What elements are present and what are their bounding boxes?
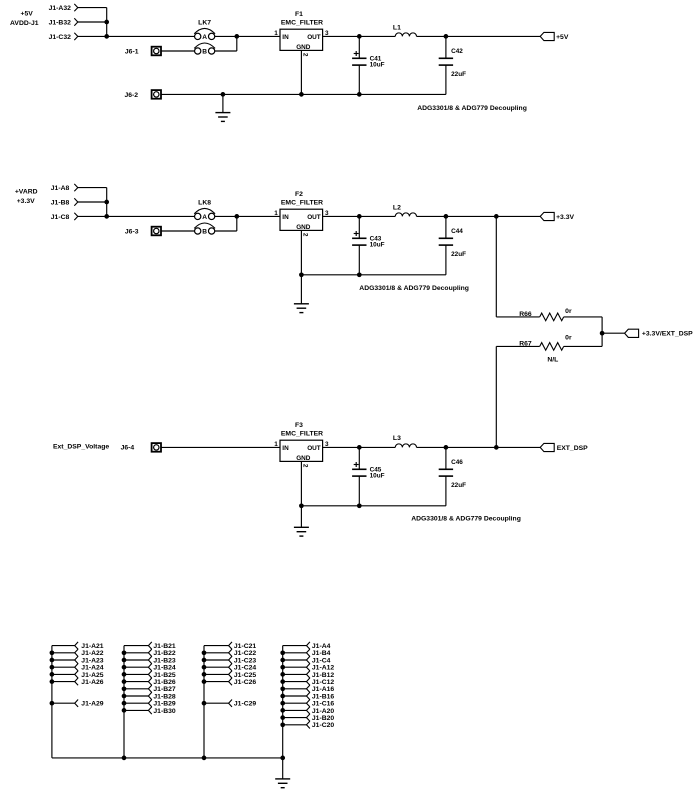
svg-text:2: 2	[301, 233, 308, 237]
pin J1-C12	[283, 678, 335, 686]
svg-text:+5V: +5V	[21, 11, 34, 18]
pin J1-C16	[283, 700, 335, 708]
junction J1-A12	[280, 665, 285, 670]
bus group misc	[282, 646, 284, 758]
junction branch 3.3V	[494, 214, 499, 219]
svg-text:OUT: OUT	[307, 214, 321, 221]
svg-text:J1-A23: J1-A23	[81, 657, 104, 664]
junction J1-B16	[280, 694, 285, 699]
junction J1-A25	[50, 672, 55, 677]
svg-text:22uF: 22uF	[451, 71, 466, 78]
junction C32	[104, 34, 109, 39]
junction F3 GND	[299, 503, 304, 508]
terminal +3.3V	[540, 212, 574, 220]
pin J1-C21	[204, 642, 256, 650]
wire branch to terminal	[496, 215, 540, 217]
connector J6-2	[124, 90, 161, 99]
svg-text:+3.3V: +3.3V	[556, 214, 574, 221]
svg-text:J1-B12: J1-B12	[312, 672, 335, 679]
pin J1-B20	[283, 714, 335, 722]
F3 pin 2 (GND)	[301, 464, 308, 468]
svg-text:J1-B26: J1-B26	[153, 679, 176, 686]
svg-text:J1-B21: J1-B21	[153, 643, 176, 650]
wire bottom J6-2 to C42	[161, 93, 446, 95]
terminal +3.3V/EXT_DSP	[625, 329, 694, 337]
F2 pin 2 (GND)	[301, 233, 308, 237]
terminal +5V	[540, 32, 569, 40]
svg-text:J1-A8: J1-A8	[51, 185, 70, 192]
wire +3.3V down to R66	[496, 216, 539, 317]
pin J1-A25	[52, 671, 104, 679]
junction bottom B	[122, 756, 127, 761]
wire J1-A8 to bus	[78, 187, 107, 189]
wire C46 to branch	[446, 446, 496, 448]
pin J1-A20	[283, 707, 335, 715]
junction J1-B28	[122, 694, 127, 699]
F3 pin 1	[274, 441, 278, 448]
svg-text:10uF: 10uF	[370, 241, 385, 248]
resistor R67 0r N/L	[519, 335, 572, 364]
pin J1-B32	[49, 18, 78, 26]
svg-text:ADG3301/8 & ADG779 Decoupling: ADG3301/8 & ADG779 Decoupling	[359, 285, 469, 292]
svg-text:IN: IN	[282, 34, 289, 41]
svg-text:J1-B8: J1-B8	[51, 199, 70, 206]
wire C44 to branch	[446, 215, 496, 217]
wire C43 to L2	[359, 215, 395, 217]
svg-text:J1-B32: J1-B32	[49, 19, 72, 26]
svg-text:3: 3	[325, 30, 329, 37]
junction B8	[104, 200, 109, 205]
wire C43 top lead	[358, 216, 360, 238]
junction J1-B25	[122, 672, 127, 677]
junction C8	[104, 214, 109, 219]
note decoupling 3	[411, 516, 521, 523]
svg-text:J6-4: J6-4	[121, 445, 135, 452]
svg-text:L2: L2	[393, 204, 401, 211]
capacitor C45 10uF	[352, 462, 385, 479]
F1 pin 3	[325, 30, 329, 37]
svg-text:EXT_DSP: EXT_DSP	[557, 445, 588, 452]
jumper LK7 row A	[194, 28, 215, 40]
pin J1-B16	[283, 692, 335, 700]
pin J1-B27	[124, 685, 176, 693]
node +3.3V/EXT_DSP	[600, 331, 605, 336]
svg-text:J1-C20: J1-C20	[312, 722, 335, 729]
wire J6-1 to LK7 B	[161, 50, 195, 52]
svg-text:OUT: OUT	[307, 34, 321, 41]
svg-text:J1-B25: J1-B25	[153, 672, 176, 679]
junction J1-C29	[202, 701, 207, 706]
wire bottom 3	[301, 505, 446, 507]
svg-text:0r: 0r	[565, 308, 572, 315]
svg-text:3: 3	[325, 441, 329, 448]
pin J1-C32	[49, 33, 78, 41]
capacitor C44 22uF	[439, 228, 466, 258]
junction J1-C25	[202, 672, 207, 677]
svg-text:GND: GND	[296, 44, 311, 51]
junction F2 GND	[299, 272, 304, 277]
svg-text:J1-A12: J1-A12	[312, 665, 335, 672]
pin J1-B25	[124, 671, 176, 679]
wire bottom ground bus	[52, 757, 283, 759]
junction C46 top	[444, 445, 449, 450]
svg-text:J1-C22: J1-C22	[234, 650, 257, 657]
jumper LK7 label	[198, 19, 211, 26]
svg-text:B: B	[202, 228, 207, 235]
svg-text:2: 2	[301, 53, 308, 57]
wire F3 OUT to C45	[323, 446, 360, 448]
svg-text:J1-A32: J1-A32	[49, 5, 72, 12]
wire C44 top lead	[445, 216, 447, 238]
svg-text:J1-B30: J1-B30	[153, 708, 176, 715]
wire junction to F1 IN	[237, 35, 280, 37]
wire C43 bottom lead	[358, 245, 360, 275]
wire C42 top lead	[445, 36, 447, 58]
junction J1-B20	[280, 715, 285, 720]
svg-text:+5V: +5V	[556, 34, 569, 41]
svg-text:J1-A24: J1-A24	[81, 665, 104, 672]
junction J1-C22	[202, 650, 207, 655]
wire C42 bottom lead	[445, 65, 447, 94]
svg-text:J6-3: J6-3	[125, 228, 139, 235]
junction LK7 out	[234, 34, 239, 39]
svg-text:ADG3301/8 & ADG779 Decoupling: ADG3301/8 & ADG779 Decoupling	[417, 105, 527, 112]
bus group B2x	[123, 646, 125, 758]
svg-text:C44: C44	[451, 228, 463, 235]
junction J1-B24	[122, 665, 127, 670]
wire J1-A32 to bus	[78, 7, 107, 9]
wire bottom 2	[301, 274, 446, 276]
junction J1-B26	[122, 679, 127, 684]
svg-text:J1-B23: J1-B23	[153, 657, 176, 664]
junction J1-C23	[202, 658, 207, 663]
wire J1-B32 to bus	[78, 21, 107, 23]
junction C45 top	[357, 445, 362, 450]
pin J1-C8	[51, 213, 78, 221]
pin J1-C29	[204, 700, 256, 708]
wire C41 to L1	[359, 35, 395, 37]
pin J1-A23	[52, 656, 104, 664]
inductor L1	[393, 24, 417, 36]
svg-text:J1-A29: J1-A29	[81, 701, 104, 708]
pin J1-C24	[204, 664, 256, 672]
junction F1 GND bottom	[299, 92, 304, 97]
ground symbol bottom	[275, 758, 290, 788]
svg-text:1: 1	[274, 30, 278, 37]
svg-text:C46: C46	[451, 459, 463, 466]
wire LK8 B up to junction	[215, 216, 237, 231]
wire C45 to L3	[359, 446, 395, 448]
svg-text:J1-C32: J1-C32	[49, 34, 72, 41]
svg-text:OUT: OUT	[307, 445, 321, 452]
connector J6-1	[125, 47, 161, 56]
connector J6-3	[125, 227, 161, 236]
svg-text:+VARD: +VARD	[15, 188, 38, 195]
svg-text:J1-C4: J1-C4	[312, 657, 331, 664]
svg-text:L3: L3	[393, 435, 401, 442]
jumper LK8 row B	[194, 223, 215, 235]
wire LK8 A to junction	[215, 215, 237, 217]
junction EXT_DSP branch	[494, 445, 499, 450]
pin J1-A32	[49, 4, 78, 12]
wire C46 bottom lead	[445, 476, 447, 506]
wire F2 GND stem	[300, 230, 302, 274]
svg-text:IN: IN	[282, 445, 289, 452]
pin J1-A21	[52, 642, 104, 650]
wire C8 to LK8	[78, 215, 195, 217]
wire C42 to terminal +5V	[446, 35, 540, 37]
junction C41 bottom	[357, 92, 362, 97]
pin J1-B30	[124, 707, 176, 715]
wire C41 bottom lead	[358, 65, 360, 94]
svg-text:J1-C21: J1-C21	[234, 643, 257, 650]
jumper LK8 label	[198, 199, 211, 206]
wire LK7 A to junction	[215, 35, 237, 37]
wire branch to terminal EXT_DSP	[496, 446, 540, 448]
junction J1-A22	[50, 650, 55, 655]
svg-text:J1-B29: J1-B29	[153, 701, 176, 708]
svg-text:J1-A26: J1-A26	[81, 679, 104, 686]
pin J1-A4	[283, 642, 331, 650]
junction J1-A16	[280, 686, 285, 691]
svg-text:EMC_FILTER: EMC_FILTER	[281, 200, 323, 207]
terminal EXT_DSP	[540, 443, 588, 451]
svg-text:L1: L1	[393, 24, 401, 31]
svg-text:F3: F3	[295, 422, 303, 429]
svg-text:EMC_FILTER: EMC_FILTER	[281, 431, 323, 438]
junction J1-B27	[122, 686, 127, 691]
power net label +5V / AVDD-J1	[10, 11, 39, 28]
svg-text:+3.3V/EXT_DSP: +3.3V/EXT_DSP	[642, 331, 693, 338]
F2 pin 3	[325, 210, 329, 217]
junction LK8 out	[234, 214, 239, 219]
ground symbol 2	[294, 275, 309, 313]
junction J1-A29	[50, 701, 55, 706]
pin J1-B29	[124, 700, 176, 708]
junction J1-C16	[280, 701, 285, 706]
svg-text:1: 1	[274, 441, 278, 448]
svg-text:J1-A22: J1-A22	[81, 650, 104, 657]
svg-text:J1-C8: J1-C8	[51, 214, 70, 221]
svg-text:J1-C12: J1-C12	[312, 679, 335, 686]
svg-text:+3.3V: +3.3V	[17, 198, 35, 205]
svg-text:22uF: 22uF	[451, 251, 466, 258]
svg-text:AVDD-J1: AVDD-J1	[10, 20, 39, 27]
F1 pin 2 (GND)	[301, 53, 308, 57]
inductor L3	[393, 435, 417, 447]
bus group C2x	[203, 646, 205, 758]
svg-text:J1-B27: J1-B27	[153, 686, 176, 693]
svg-text:J1-C23: J1-C23	[234, 657, 257, 664]
wire L2 to C44	[417, 215, 446, 217]
svg-text:J1-B24: J1-B24	[153, 665, 176, 672]
pin J1-B21	[124, 642, 176, 650]
F1 EMC_FILTER	[280, 11, 323, 51]
pin J1-C23	[204, 656, 256, 664]
wire C41 top lead	[358, 36, 360, 58]
wire J6-4 to F3 IN	[161, 446, 280, 448]
F1 pin 1	[274, 30, 278, 37]
svg-text:10uF: 10uF	[370, 61, 385, 68]
capacitor C43 10uF	[352, 231, 385, 248]
resistor R66 0r	[519, 308, 572, 321]
junction ground 1	[221, 92, 226, 97]
wire R67 to node	[564, 333, 602, 346]
capacitor C46 22uF	[439, 459, 466, 489]
net label Ext_DSP_Voltage	[53, 444, 109, 451]
junction J1-A26	[50, 679, 55, 684]
svg-text:J1-A21: J1-A21	[81, 643, 104, 650]
wire node to terminal	[602, 332, 625, 334]
F2 pin 1	[274, 210, 278, 217]
svg-text:22uF: 22uF	[451, 482, 466, 489]
svg-text:F2: F2	[295, 191, 303, 198]
power net label +VARD / +3.3V	[15, 188, 38, 205]
junction C44 top	[444, 214, 449, 219]
connector J6-4	[121, 443, 161, 452]
wire J1-B8 to bus	[78, 201, 107, 203]
pin J1-A8	[51, 184, 78, 192]
svg-text:GND: GND	[296, 224, 311, 231]
junction J1-B23	[122, 658, 127, 663]
pin J1-C4	[283, 656, 331, 664]
wire bus vertical 2	[106, 188, 108, 217]
svg-text:J1-A20: J1-A20	[312, 708, 335, 715]
capacitor C41 10uF	[352, 51, 385, 68]
wire junction to F2 IN	[237, 215, 280, 217]
svg-text:R66: R66	[519, 311, 532, 318]
svg-text:C42: C42	[451, 48, 463, 55]
svg-text:J1-B22: J1-B22	[153, 650, 176, 657]
pin J1-A16	[283, 685, 335, 693]
svg-text:J1-A25: J1-A25	[81, 672, 104, 679]
svg-text:J1-C25: J1-C25	[234, 672, 257, 679]
svg-text:J6-1: J6-1	[125, 48, 139, 55]
svg-text:3: 3	[325, 210, 329, 217]
svg-text:0r: 0r	[565, 335, 572, 342]
pin J1-A29	[52, 700, 104, 708]
pin J1-B24	[124, 664, 176, 672]
wire C45 top lead	[358, 447, 360, 469]
pin J1-B28	[124, 692, 176, 700]
svg-text:10uF: 10uF	[370, 472, 385, 479]
junction J1-C20	[280, 722, 285, 727]
jumper LK8 row A	[194, 208, 215, 220]
junction C43 bottom	[357, 272, 362, 277]
svg-text:ADG3301/8 & ADG779 Decoupling: ADG3301/8 & ADG779 Decoupling	[411, 516, 521, 523]
svg-text:B: B	[202, 48, 207, 55]
svg-text:J1-B20: J1-B20	[312, 715, 335, 722]
F3 EMC_FILTER	[280, 422, 323, 462]
junction bottom C	[202, 756, 207, 761]
wire C45 bottom lead	[358, 476, 360, 506]
pin J1-C20	[283, 721, 335, 729]
svg-text:A: A	[202, 214, 207, 221]
junction C41 top	[357, 34, 362, 39]
svg-text:EMC_FILTER: EMC_FILTER	[281, 20, 323, 27]
pin J1-A22	[52, 649, 104, 657]
junction J1-A23	[50, 658, 55, 663]
pin J1-A26	[52, 678, 104, 686]
pin J1-B26	[124, 678, 176, 686]
svg-text:N/L: N/L	[547, 356, 558, 363]
junction J1-C12	[280, 679, 285, 684]
pin J1-B8	[51, 198, 78, 206]
svg-text:A: A	[202, 34, 207, 41]
svg-text:IN: IN	[282, 214, 289, 221]
junction C45 bottom	[357, 503, 362, 508]
wire bus vertical	[106, 8, 108, 37]
pin J1-B4	[283, 649, 331, 657]
junction J1-B4	[280, 650, 285, 655]
junction J1-C26	[202, 679, 207, 684]
wire L1 to C42	[417, 35, 446, 37]
svg-text:J1-A16: J1-A16	[312, 686, 335, 693]
svg-text:J1-C29: J1-C29	[234, 701, 257, 708]
svg-text:J6-2: J6-2	[124, 92, 138, 99]
note decoupling 2	[359, 285, 469, 292]
junction bottom misc	[280, 756, 285, 761]
junction C42 top	[444, 34, 449, 39]
svg-text:J1-B28: J1-B28	[153, 693, 176, 700]
bus group A2x	[51, 646, 53, 758]
junction J1-C4	[280, 658, 285, 663]
junction J1-A20	[280, 708, 285, 713]
svg-text:GND: GND	[296, 455, 311, 462]
jumper LK7 row B	[194, 43, 215, 55]
wire L3 to C46	[417, 446, 446, 448]
svg-text:J1-B4: J1-B4	[312, 650, 331, 657]
ground symbol 3	[294, 506, 309, 536]
svg-text:Ext_DSP_Voltage: Ext_DSP_Voltage	[53, 444, 109, 451]
F3 pin 3	[325, 441, 329, 448]
wire F1 OUT to C41	[323, 35, 360, 37]
wire R67 left down to EXT_DSP line	[496, 346, 539, 447]
ground symbol 1	[215, 94, 230, 121]
junction J1-B29	[122, 701, 127, 706]
pin J1-C22	[204, 649, 256, 657]
wire C46 top lead	[445, 447, 447, 469]
junction C43 top	[357, 214, 362, 219]
capacitor C42 22uF	[439, 48, 466, 78]
inductor L2	[393, 204, 417, 216]
pin J1-C26	[204, 678, 256, 686]
svg-text:J1-B16: J1-B16	[312, 693, 335, 700]
wire LK7 B up to junction	[215, 36, 237, 51]
svg-text:LK8: LK8	[198, 199, 211, 206]
wire F2 OUT to C43	[323, 215, 360, 217]
junction J1-C24	[202, 665, 207, 670]
svg-text:J1-C16: J1-C16	[312, 701, 335, 708]
pin J1-A24	[52, 664, 104, 672]
svg-text:2: 2	[301, 464, 308, 468]
pin J1-B23	[124, 656, 176, 664]
pin J1-B12	[283, 671, 335, 679]
svg-text:J1-C24: J1-C24	[234, 665, 257, 672]
note decoupling 1	[417, 105, 527, 112]
junction J1-A24	[50, 665, 55, 670]
junction J1-B22	[122, 650, 127, 655]
svg-text:J1-C26: J1-C26	[234, 679, 257, 686]
wire J6-3 to LK8 B	[161, 230, 195, 232]
wire R66 to node	[564, 317, 602, 333]
svg-text:LK7: LK7	[198, 19, 211, 26]
pin J1-A12	[283, 664, 335, 672]
svg-text:F1: F1	[295, 11, 303, 18]
junction J1-B12	[280, 672, 285, 677]
pin J1-B22	[124, 649, 176, 657]
wire C32 to LK7	[78, 35, 195, 37]
